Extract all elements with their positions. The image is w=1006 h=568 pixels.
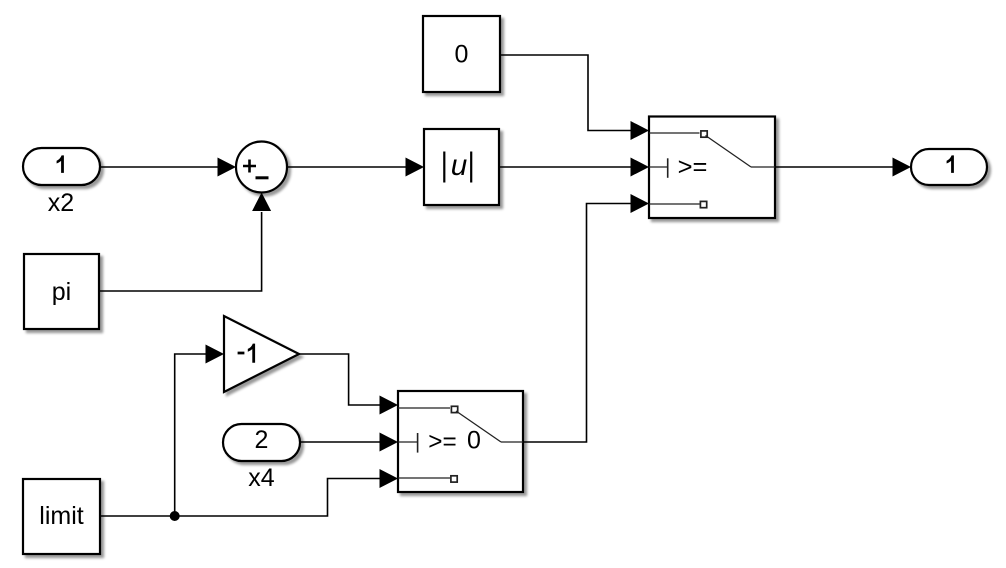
wire x2 to Sum <box>100 158 236 177</box>
svg-text:x4: x4 <box>248 464 275 492</box>
switch2 input1 pass line <box>398 406 458 412</box>
wire Abs to Switch1 input2 <box>499 158 649 177</box>
switch2 block <box>398 391 523 492</box>
constant limit <box>23 479 100 554</box>
junction dot <box>170 511 180 521</box>
wire 0 to Switch1 input1 <box>500 55 649 140</box>
outport 1 <box>911 149 987 185</box>
wire Sum to Abs <box>287 158 424 177</box>
svg-text:0: 0 <box>455 41 469 69</box>
switch2 control tick <box>398 433 418 453</box>
svg-text:>=: >= <box>678 153 708 181</box>
constant 0 <box>423 16 500 92</box>
inport 1 (x2) <box>23 148 100 185</box>
wire pi to Sum <box>99 193 271 292</box>
svg-text:pi: pi <box>52 278 71 306</box>
wire Switch1 to outport <box>775 158 911 177</box>
switch1 input1 pass line <box>649 131 707 137</box>
switch1 selector diagonal <box>706 136 776 168</box>
wire x4 to Switch2 input2 <box>300 433 398 452</box>
abs block |u| <box>424 129 499 205</box>
svg-text:0: 0 <box>467 426 481 454</box>
svg-text:>=: >= <box>428 428 456 456</box>
wire junction to Switch2 input3 <box>175 469 398 516</box>
switch1 control tick <box>649 158 668 178</box>
svg-text:limit: limit <box>39 502 83 530</box>
switch1 block <box>649 117 775 219</box>
gain -1 <box>224 316 299 392</box>
switch2 input3 pass line <box>398 476 457 482</box>
wire limit to junction to gain <box>100 345 224 517</box>
switch1 input3 pass line <box>649 201 707 207</box>
wire gain to Switch2 input1 <box>299 354 398 415</box>
svg-text:x2: x2 <box>48 189 74 217</box>
svg-text:2: 2 <box>255 426 269 454</box>
inport 2 (x4) <box>223 424 300 461</box>
svg-text:u: u <box>451 149 468 182</box>
wire Switch2 to Switch1 input3 <box>523 194 649 442</box>
sum block U1 <box>236 142 287 193</box>
constant pi <box>24 254 99 329</box>
switch2 selector diagonal <box>456 411 523 442</box>
